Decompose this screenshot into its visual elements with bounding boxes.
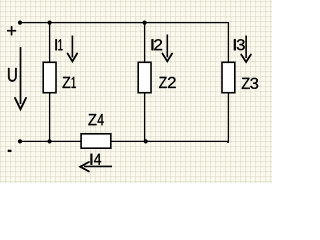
wire branch 1 top xyxy=(49,23,51,63)
current arrow I2 xyxy=(152,35,173,62)
node branch 1 top junction xyxy=(48,21,52,25)
wire bottom bus left of Z4 xyxy=(20,140,81,142)
node branch 2 top junction xyxy=(143,21,147,25)
wire branch 1 bottom xyxy=(49,93,51,142)
terminal label minus xyxy=(8,150,11,152)
current arrow I1 xyxy=(55,36,77,62)
wire right drop to Z3 xyxy=(227,22,229,62)
wire bottom bus right of Z4 xyxy=(111,140,228,142)
wire Z3 bottom to bus xyxy=(227,93,228,142)
node negative terminal junction xyxy=(18,139,22,143)
voltage arrow U xyxy=(8,47,26,109)
wire branch 2 top xyxy=(144,23,146,63)
node positive terminal junction xyxy=(18,21,22,25)
current arrow I4 xyxy=(80,154,112,172)
node branch 2 bottom junction xyxy=(144,139,148,143)
wire branch 2 bottom xyxy=(144,93,146,142)
wire top horizontal bus xyxy=(20,22,228,24)
resistor Z4 xyxy=(81,114,111,148)
terminal label plus xyxy=(7,26,16,35)
node branch 1 bottom junction xyxy=(48,139,52,143)
resistor Z3 xyxy=(222,62,258,92)
current arrow I3 xyxy=(234,36,251,63)
resistor Z1 xyxy=(43,62,76,92)
resistor Z2 xyxy=(138,62,176,92)
